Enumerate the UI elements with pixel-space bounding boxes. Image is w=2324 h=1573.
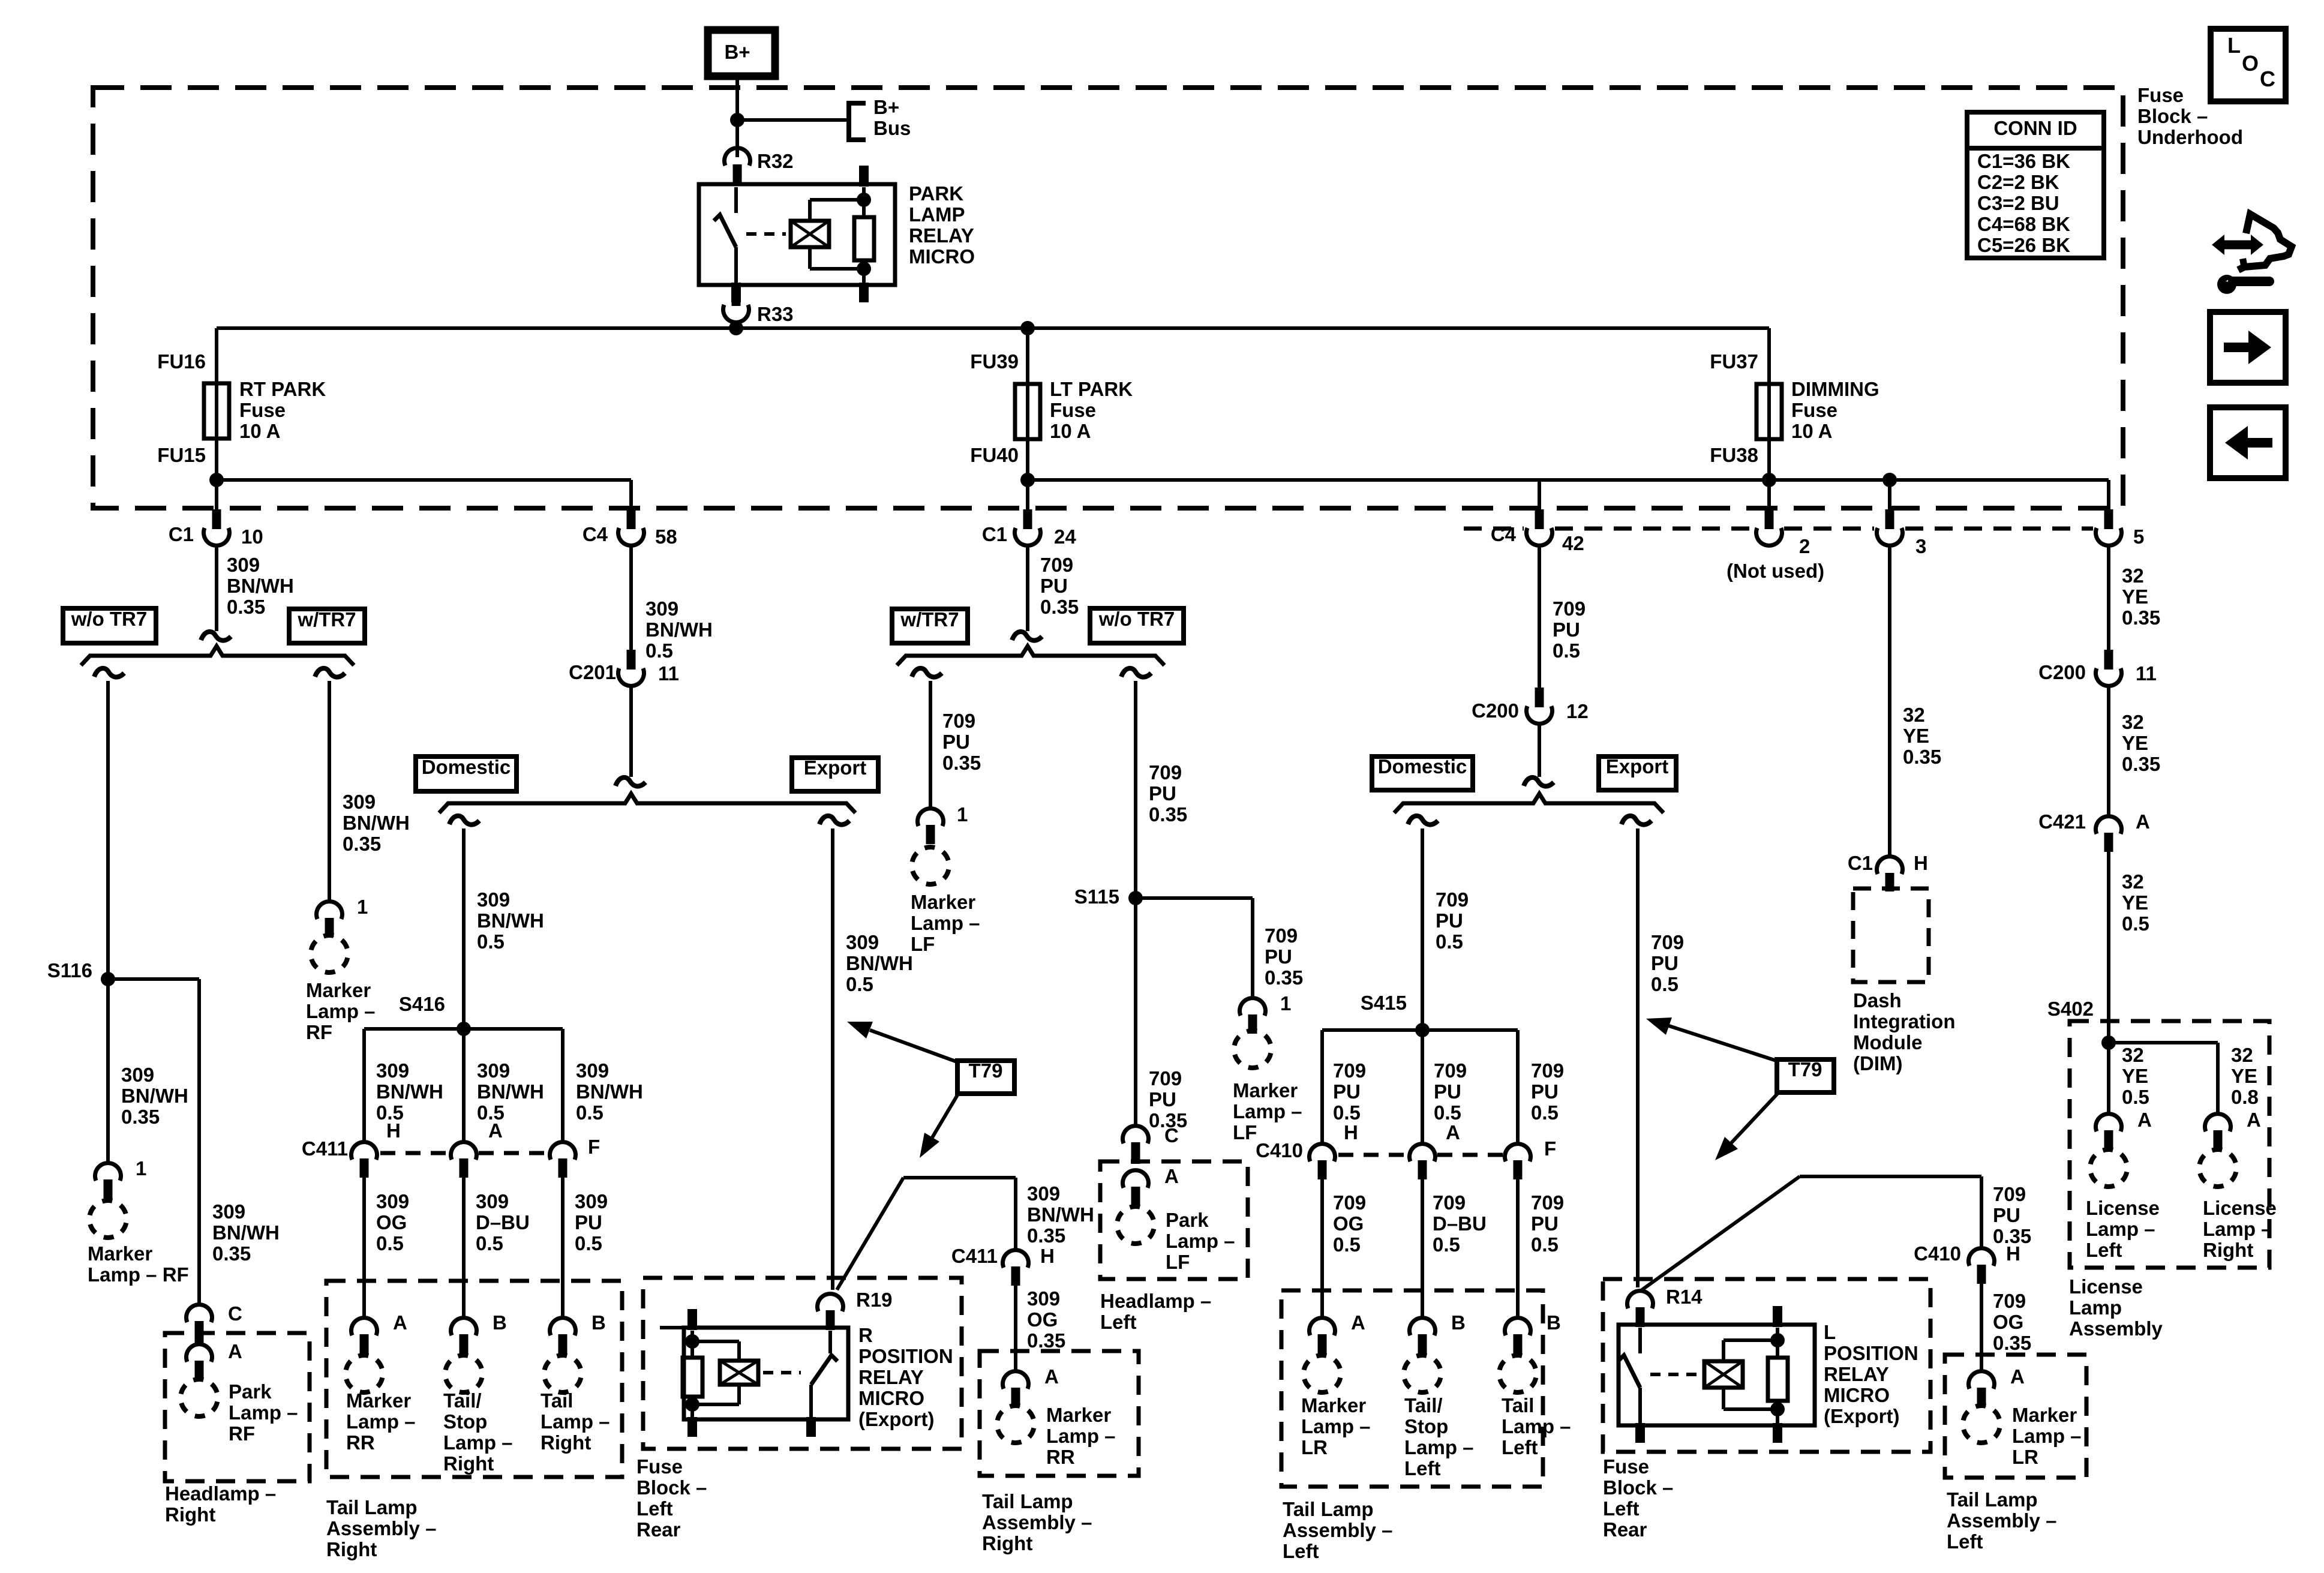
svg-text:C4: C4 <box>1491 523 1517 545</box>
callout box T79 (left) <box>957 1061 1014 1094</box>
svg-text:FU16: FU16 <box>157 350 206 373</box>
svg-text:A: A <box>393 1311 407 1334</box>
connector pin 5 <box>2104 509 2113 529</box>
svg-text:C410: C410 <box>1914 1242 1961 1265</box>
svg-text:Tail/: Tail/ <box>1404 1394 1443 1416</box>
svg-text:1: 1 <box>1280 992 1291 1014</box>
lamp: Park Lamp - LF <box>1113 1203 1158 1247</box>
svg-text:Tail Lamp: Tail Lamp <box>1283 1498 1374 1520</box>
component box: Tail Lamp Assembly - Left <box>1281 1290 1543 1487</box>
svg-text:H: H <box>386 1119 401 1142</box>
wire: down to park lamp RF <box>197 979 201 1305</box>
wire: S415 left drop <box>1320 1030 1324 1143</box>
svg-text:309: 309 <box>477 888 510 911</box>
junction S402 <box>2101 1035 2116 1050</box>
relay: L Position Relay Micro (Export) switch fixed contact <box>1638 1328 1642 1353</box>
svg-text:309: 309 <box>227 554 260 576</box>
component box: Fuse Block - Left Rear (R14) <box>1603 1279 1930 1452</box>
svg-text:OG: OG <box>1027 1308 1058 1331</box>
svg-text:License: License <box>2203 1197 2277 1219</box>
svg-text:709: 709 <box>942 710 975 732</box>
svg-text:0.35: 0.35 <box>121 1106 160 1128</box>
svg-text:Marker: Marker <box>88 1242 152 1265</box>
relay: Park Lamp Relay Micro coil lower jumper <box>808 247 812 269</box>
svg-text:Assembly –: Assembly – <box>1283 1519 1392 1541</box>
connector R19 <box>817 1294 843 1311</box>
wire: C410-H to marker lamp LR <box>1320 1178 1324 1319</box>
callout arrow T79 to relay feed <box>932 1093 959 1137</box>
svg-text:YE: YE <box>2122 586 2148 608</box>
relay: Park Lamp Relay Micro coil upper tie <box>810 198 864 202</box>
relay: L Position Relay Micro (Export) coil lower tie <box>1724 1407 1777 1411</box>
lamp: Park Lamp - RF <box>177 1376 221 1420</box>
connector row line (fuse block bottom right) <box>1464 527 1524 531</box>
component box: Tail Lamp Assembly - Left (export) <box>1945 1355 2086 1478</box>
connector C410 pin H <box>1310 1144 1335 1161</box>
connector A park lamp RF <box>187 1344 212 1362</box>
svg-text:w/TR7: w/TR7 <box>900 608 959 631</box>
svg-text:Integration: Integration <box>1853 1010 1956 1032</box>
svg-text:1: 1 <box>136 1157 146 1179</box>
svg-text:2: 2 <box>1799 535 1810 557</box>
svg-text:709: 709 <box>1436 888 1469 911</box>
wire: S402 left drop <box>2107 1043 2110 1113</box>
svg-text:PU: PU <box>1993 1204 2020 1226</box>
svg-text:309: 309 <box>575 1190 608 1212</box>
svg-text:0.5: 0.5 <box>2122 1086 2149 1108</box>
connector pin 1 marker lamp RF (w/TR7) <box>317 902 343 919</box>
relay: R Position Relay Micro (Export) actuator linkage <box>763 1371 801 1374</box>
wire: R19 diagonal feed <box>837 1178 903 1290</box>
svg-text:Lamp –: Lamp – <box>1301 1415 1371 1437</box>
svg-text:Lamp –: Lamp – <box>2012 1425 2082 1447</box>
svg-text:Left: Left <box>1404 1457 1441 1479</box>
component box: Dash Integration Module <box>1853 888 1929 982</box>
svg-text:0.5: 0.5 <box>376 1232 404 1254</box>
connector C1 pin 24 <box>1023 509 1032 529</box>
wire break left branch <box>94 668 124 677</box>
svg-text:H: H <box>1344 1121 1358 1143</box>
svg-text:T79: T79 <box>1788 1058 1822 1080</box>
connector B tail/stop lamp left <box>1410 1318 1436 1335</box>
svg-text:0.5: 0.5 <box>1333 1233 1361 1256</box>
lamp: Marker Lamp - RF (w/TR7) <box>307 932 352 976</box>
svg-text:Export: Export <box>1606 755 1669 778</box>
relay: Park Lamp Relay Micro pin stub top-right <box>859 166 869 187</box>
svg-text:5: 5 <box>2133 526 2144 548</box>
svg-text:Fuse: Fuse <box>1791 399 1837 421</box>
svg-text:R33: R33 <box>757 303 794 325</box>
svg-text:Left: Left <box>1100 1311 1137 1333</box>
junction FU15 <box>209 473 224 487</box>
svg-text:LF: LF <box>1166 1251 1190 1273</box>
wire: through fuse FU37 <box>1767 387 1771 435</box>
wire: pin 3 to DIM <box>1888 545 1891 856</box>
svg-text:Lamp –: Lamp – <box>2086 1218 2155 1240</box>
relay: Park Lamp Relay Micro switch blade <box>714 215 736 247</box>
svg-text:S116: S116 <box>47 959 92 981</box>
svg-text:A: A <box>488 1119 503 1142</box>
icon: back arrow <box>2248 438 2272 448</box>
relay: Park Lamp Relay Micro resistor lower lead <box>862 260 866 285</box>
svg-text:CONN ID: CONN ID <box>1993 117 2077 139</box>
junction S416 <box>457 1022 471 1036</box>
wire: feed crossbar <box>903 1176 1016 1179</box>
wire break export branch (right) <box>1622 816 1652 825</box>
wire: w/TR7 branch down (right) <box>929 681 932 808</box>
svg-text:1: 1 <box>357 896 368 918</box>
component box: Tail Lamp Assembly - Right <box>326 1281 622 1477</box>
svg-text:0.35: 0.35 <box>1027 1329 1065 1352</box>
svg-text:Park: Park <box>229 1380 272 1403</box>
svg-text:BN/WH: BN/WH <box>477 1080 544 1103</box>
svg-text:Dash: Dash <box>1853 989 1902 1011</box>
svg-text:0.5: 0.5 <box>1433 1233 1460 1256</box>
wire: C201-11 down <box>629 686 633 777</box>
svg-text:32: 32 <box>2122 711 2144 733</box>
junction FU40 <box>1020 473 1035 487</box>
svg-text:709: 709 <box>1531 1059 1564 1082</box>
wire: S116 to headlamp right <box>108 977 199 981</box>
svg-text:Tail: Tail <box>1502 1394 1534 1416</box>
svg-text:PU: PU <box>1149 782 1176 804</box>
svg-text:A: A <box>1446 1121 1460 1143</box>
svg-text:309: 309 <box>1027 1287 1060 1310</box>
wire break w/o TR7 branch (right) <box>1121 668 1151 677</box>
svg-text:Lamp –: Lamp – <box>346 1410 416 1433</box>
relay: R Position Relay Micro (Export) coil lower tie <box>692 1403 739 1406</box>
svg-text:w/TR7: w/TR7 <box>297 608 356 631</box>
lamp: Marker Lamp - LR <box>1300 1352 1344 1396</box>
power symbol B+ box <box>708 30 775 76</box>
svg-text:T79: T79 <box>969 1059 1003 1082</box>
svg-text:R32: R32 <box>757 150 794 172</box>
wire: S416 left drop <box>362 1029 366 1141</box>
svg-text:32: 32 <box>2122 870 2144 893</box>
svg-text:FU38: FU38 <box>1710 444 1758 466</box>
svg-text:Left: Left <box>2086 1239 2122 1261</box>
svg-text:Rear: Rear <box>636 1518 681 1541</box>
svg-text:OG: OG <box>376 1211 407 1233</box>
option box w/TR7 <box>289 609 365 643</box>
relay: L Position Relay Micro (Export) pin stub bottom-left <box>1635 1423 1645 1443</box>
relay: Park Lamp Relay Micro actuator linkage <box>746 232 786 236</box>
wire: fuse to FU15 node <box>215 435 218 480</box>
wire: B+ to relay <box>735 76 739 157</box>
wire: C411-F to tail lamp right <box>561 1176 565 1319</box>
svg-text:(Not used): (Not used) <box>1727 560 1824 582</box>
svg-text:309: 309 <box>376 1190 409 1212</box>
wire: bus drop to C4-42 <box>1538 480 1541 509</box>
fuse FU39/FU40 LT PARK <box>1015 384 1040 439</box>
svg-text:Lamp: Lamp <box>2069 1296 2122 1319</box>
option box w/o TR7 (right) <box>1090 608 1184 643</box>
component box: License Lamp Assembly <box>2070 1021 2269 1268</box>
component box: Headlamp - Right <box>165 1333 310 1481</box>
svg-text:C1: C1 <box>1848 852 1873 874</box>
svg-text:Right: Right <box>326 1538 377 1560</box>
svg-text:Right: Right <box>443 1452 494 1475</box>
svg-text:LF: LF <box>1233 1121 1257 1143</box>
svg-text:0.5: 0.5 <box>645 640 673 662</box>
wire: C4-58 down <box>629 545 633 652</box>
svg-text:309: 309 <box>846 931 879 953</box>
svg-text:PU: PU <box>1553 619 1580 641</box>
connector A marker lamp LR <box>1310 1318 1335 1335</box>
lamp: Marker Lamp - RR (export) <box>993 1402 1038 1446</box>
connector row line C410 <box>1338 1153 1407 1157</box>
wire: C200-11 down <box>2107 686 2110 816</box>
wire: through fuse FU16 <box>215 387 218 435</box>
svg-text:BN/WH: BN/WH <box>576 1080 643 1103</box>
svg-text:Lamp –: Lamp – <box>541 1410 610 1433</box>
wire break domestic branch (right) <box>1408 816 1438 825</box>
wire break above split <box>201 632 231 641</box>
wire: C1-24 down <box>1026 545 1029 631</box>
connector C1 pin H (DIM) <box>1877 857 1903 874</box>
svg-text:C201: C201 <box>569 661 616 683</box>
relay: L Position Relay Micro (Export) outline <box>1619 1325 1815 1425</box>
svg-text:POSITION: POSITION <box>858 1345 953 1367</box>
svg-text:PU: PU <box>942 731 970 753</box>
svg-text:Assembly –: Assembly – <box>982 1511 1092 1533</box>
connector row line (fuse block bottom right) <box>1784 527 1874 531</box>
lamp: Tail/Stop Lamp - Right <box>442 1352 486 1396</box>
relay: L Position Relay Micro (Export) switch blade <box>1618 1355 1640 1388</box>
svg-text:Rear: Rear <box>1603 1518 1647 1541</box>
svg-text:Lamp –: Lamp – <box>1404 1436 1474 1458</box>
svg-text:Stop: Stop <box>443 1410 487 1433</box>
wire: bus drop to pin 2 <box>1767 480 1771 509</box>
relay: R Position Relay Micro (Export) node upper <box>685 1334 699 1349</box>
lamp: Marker Lamp - RR <box>342 1352 386 1396</box>
option split Domestic vs Export (left) <box>439 794 855 813</box>
svg-text:0.5: 0.5 <box>1651 973 1679 995</box>
wire: bus to FU16 <box>215 328 218 387</box>
svg-text:LR: LR <box>1301 1436 1328 1458</box>
relay: L Position Relay Micro (Export) resistor <box>1768 1358 1788 1401</box>
svg-text:PU: PU <box>1651 952 1679 974</box>
svg-text:1: 1 <box>957 803 968 825</box>
svg-text:B: B <box>493 1311 507 1334</box>
relay: R Position Relay Micro (Export) pin stub top-right <box>687 1309 697 1330</box>
connector C410 pin F <box>1505 1144 1531 1161</box>
svg-text:F: F <box>1544 1137 1556 1160</box>
wire break export branch <box>819 816 849 825</box>
callout arrow T79 to export wire (right) <box>1669 1026 1778 1061</box>
svg-text:Fuse: Fuse <box>1050 399 1096 421</box>
connector C200 pin 11 <box>2104 650 2113 670</box>
svg-text:A: A <box>2247 1109 2261 1131</box>
option box Domestic <box>416 757 517 791</box>
svg-text:Assembly –: Assembly – <box>1947 1509 2056 1532</box>
lamp: Tail Lamp - Right <box>541 1352 585 1396</box>
svg-text:0.5: 0.5 <box>576 1101 603 1124</box>
relay: Park Lamp Relay Micro switch fixed contact <box>734 187 738 213</box>
svg-text:RELAY: RELAY <box>858 1366 924 1388</box>
svg-text:Lamp –: Lamp – <box>911 912 980 934</box>
svg-text:C411: C411 <box>951 1245 998 1267</box>
wire: S402 right drop <box>2216 1043 2220 1113</box>
svg-text:RF: RF <box>306 1021 332 1043</box>
svg-text:PU: PU <box>1436 909 1463 932</box>
junction: bus at FU39 <box>1020 321 1035 335</box>
svg-text:LAMP: LAMP <box>909 203 965 226</box>
svg-text:C411: C411 <box>302 1137 348 1160</box>
svg-text:Marker: Marker <box>1233 1079 1298 1101</box>
svg-text:709: 709 <box>1333 1059 1366 1082</box>
svg-text:YE: YE <box>2122 1065 2148 1087</box>
svg-text:0.35: 0.35 <box>1993 1332 2031 1354</box>
connector R14 <box>1628 1291 1653 1308</box>
bus: FU15 output <box>217 478 631 482</box>
svg-text:BN/WH: BN/WH <box>121 1085 188 1107</box>
svg-text:C4: C4 <box>582 523 608 545</box>
svg-text:Stop: Stop <box>1404 1415 1448 1437</box>
wire: fuse to FU40 node <box>1026 435 1029 480</box>
relay: L Position Relay Micro (Export) resistor upper lead <box>1776 1328 1779 1358</box>
svg-text:PU: PU <box>1434 1080 1461 1103</box>
svg-text:Fuse: Fuse <box>239 399 286 421</box>
icon: double arrow <box>2212 235 2224 255</box>
svg-text:Domestic: Domestic <box>1378 755 1467 778</box>
svg-text:309: 309 <box>576 1059 609 1082</box>
svg-text:32: 32 <box>2122 565 2144 587</box>
svg-text:A: A <box>1351 1311 1365 1334</box>
svg-text:RELAY: RELAY <box>1824 1363 1889 1385</box>
wire: w/o TR7 branch down <box>106 681 110 1164</box>
lamp: Marker Lamp - LF <box>1230 1027 1275 1071</box>
relay: Park Lamp Relay Micro resistor <box>854 217 874 260</box>
relay: R Position Relay Micro (Export) resistor upper lead <box>690 1331 694 1358</box>
svg-text:PU: PU <box>1265 945 1292 968</box>
relay: L Position Relay Micro (Export) coil lower jumper <box>1722 1388 1725 1409</box>
svg-text:Headlamp –: Headlamp – <box>1100 1290 1211 1312</box>
svg-text:LF: LF <box>911 933 935 955</box>
wire: bus to FU39 <box>1026 328 1029 387</box>
svg-text:RELAY: RELAY <box>909 224 974 247</box>
wire: drop to pin 1 LF <box>1251 898 1254 998</box>
svg-text:BN/WH: BN/WH <box>477 909 544 932</box>
icon: LOC box <box>2211 29 2286 101</box>
wire: through fuse FU39 <box>1026 387 1029 435</box>
relay: L Position Relay Micro (Export) node lower <box>1770 1402 1785 1416</box>
relay: Park Lamp Relay Micro coil <box>791 221 829 247</box>
wire: R33 to bus <box>734 323 738 331</box>
wire: relay top edge extension <box>660 1326 684 1329</box>
svg-text:11: 11 <box>658 662 679 685</box>
svg-text:C: C <box>2260 67 2275 91</box>
svg-text:B+: B+ <box>873 96 899 118</box>
svg-text:42: 42 <box>1562 532 1584 554</box>
wire: pin 5 down <box>2107 545 2110 652</box>
wire: S416 crossbar <box>364 1027 563 1031</box>
svg-text:Domestic: Domestic <box>422 756 511 778</box>
svg-text:Bus: Bus <box>873 117 911 139</box>
connector C421 pin A <box>2096 816 2122 834</box>
svg-text:709: 709 <box>1433 1191 1466 1214</box>
junction S415 <box>1415 1023 1430 1037</box>
svg-text:S416: S416 <box>399 993 445 1015</box>
fuse FU16/FU15 RT PARK <box>204 383 229 439</box>
svg-text:10 A: 10 A <box>239 420 280 442</box>
lamp: Marker Lamp - LF (w/TR7) <box>908 843 953 888</box>
relay: L Position Relay Micro (Export) coil upper jumper <box>1722 1340 1725 1361</box>
svg-text:Lamp –: Lamp – <box>1046 1425 1116 1447</box>
svg-text:C2=2 BK: C2=2 BK <box>1977 171 2059 193</box>
svg-text:w/o TR7: w/o TR7 <box>1098 608 1175 630</box>
svg-text:Park: Park <box>1166 1209 1209 1231</box>
connector C410 pin A <box>1410 1144 1436 1161</box>
svg-text:L: L <box>2227 33 2241 58</box>
bus: FU40 output <box>1028 478 2109 482</box>
wire: C4-42 down <box>1538 545 1541 689</box>
svg-text:32: 32 <box>2122 1044 2144 1066</box>
svg-text:Tail Lamp: Tail Lamp <box>326 1496 418 1518</box>
wire: fuse to FU38 node <box>1767 435 1771 480</box>
wire: FU40 to C1-24 <box>1026 480 1029 510</box>
svg-text:10 A: 10 A <box>1050 420 1091 442</box>
svg-text:FU40: FU40 <box>970 444 1019 466</box>
svg-text:709: 709 <box>1040 554 1073 576</box>
relay: L Position Relay Micro (Export) node upper <box>1770 1333 1785 1347</box>
lamp: Marker Lamp - LR (export) <box>1959 1402 2004 1446</box>
relay: L Position Relay Micro (Export) pin stub top-right <box>1773 1306 1782 1327</box>
svg-text:BN/WH: BN/WH <box>645 619 713 641</box>
component box: Fuse Block - Left Rear <box>643 1278 962 1449</box>
lamp: Tail Lamp - Left <box>1496 1352 1540 1396</box>
svg-text:709: 709 <box>1993 1183 2026 1205</box>
svg-text:BN/WH: BN/WH <box>1027 1203 1094 1226</box>
svg-text:LR: LR <box>2012 1446 2038 1468</box>
wire: bus to FU37 <box>1767 328 1771 387</box>
wire: domestic branch down to S415 <box>1421 828 1424 1143</box>
connector pin 1 marker lamp RF <box>95 1163 121 1181</box>
connector C411 pin F <box>550 1142 576 1160</box>
connector C411 pin A <box>451 1142 477 1160</box>
svg-text:C4=68 BK: C4=68 BK <box>1977 213 2070 235</box>
relay: Park Lamp Relay Micro pin stub bottom-right <box>859 283 869 302</box>
wire: S415 right drop <box>1516 1030 1520 1143</box>
svg-text:C200: C200 <box>2038 661 2086 683</box>
svg-text:709: 709 <box>1651 931 1684 953</box>
svg-text:C1: C1 <box>169 523 194 545</box>
svg-text:Marker: Marker <box>1046 1404 1111 1426</box>
svg-text:709: 709 <box>1333 1191 1366 1214</box>
svg-text:32: 32 <box>1903 704 1925 726</box>
svg-text:58: 58 <box>655 526 677 548</box>
svg-text:PU: PU <box>1333 1080 1361 1103</box>
svg-text:0.5: 0.5 <box>2122 912 2149 935</box>
component box: Tail Lamp Assembly - Right (export) <box>980 1351 1139 1476</box>
wire: tap to B+ Bus terminal <box>737 118 849 122</box>
relay: R Position Relay Micro (Export) outline <box>684 1328 848 1419</box>
option split Domestic vs Export (right) <box>1394 794 1664 813</box>
svg-text:0.35: 0.35 <box>1903 746 1941 768</box>
svg-text:A: A <box>1044 1365 1059 1388</box>
svg-text:R19: R19 <box>856 1289 893 1311</box>
svg-text:H: H <box>1040 1245 1055 1267</box>
wire: feed drop to C410-H <box>1980 1176 1983 1248</box>
lamp: Tail/Stop Lamp - Left <box>1400 1352 1445 1396</box>
svg-text:0.5: 0.5 <box>846 973 873 995</box>
wire: w/o TR7 branch down to S115 <box>1134 681 1137 1127</box>
svg-text:0.35: 0.35 <box>2122 753 2160 775</box>
relay: Park Lamp Relay Micro pin stub bottom-left <box>731 283 741 302</box>
option box Export (right) <box>1599 757 1676 790</box>
wire: C410-F to tail lamp left <box>1516 1178 1520 1319</box>
svg-text:0.35: 0.35 <box>1027 1224 1065 1247</box>
